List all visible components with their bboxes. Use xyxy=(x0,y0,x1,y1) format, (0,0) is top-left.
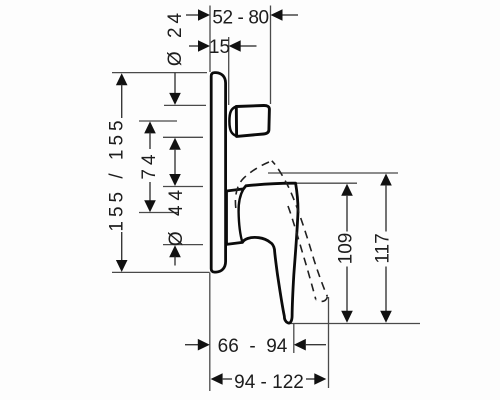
dimension 109 xyxy=(336,184,357,323)
dimension 74 (axis distance) xyxy=(139,121,160,212)
svg-text:15: 15 xyxy=(209,37,230,58)
extension line: handle tip (right of 66-94) xyxy=(293,323,295,353)
dimension 94-122 xyxy=(211,372,327,393)
extension line: wall face bottom (left of 66-94 / 94-122) xyxy=(209,272,211,391)
svg-text:Ø 44: Ø 44 xyxy=(166,185,187,246)
raised handle dashed top edge xyxy=(235,161,271,208)
ref line: knob bottom xyxy=(163,136,203,138)
ref line: plate bottom xyxy=(112,271,210,273)
ref line: knob axis xyxy=(139,120,177,122)
ref line: lever axis xyxy=(139,212,179,214)
ref line: knob top xyxy=(164,104,206,106)
ref line: lever hub bottom xyxy=(163,244,203,246)
raised handle dashed outer edge xyxy=(272,161,328,297)
escutcheon plate (side view) xyxy=(211,73,225,273)
svg-text:155 / 155: 155 / 155 xyxy=(107,116,128,231)
dimension diameter 24 (knob) xyxy=(165,9,186,105)
svg-text:117: 117 xyxy=(373,233,394,263)
svg-text:52 - 80: 52 - 80 xyxy=(212,8,268,29)
ref line: lever hub top xyxy=(163,186,203,188)
ref line: lever top corner (109) xyxy=(297,182,358,184)
dimension diameter 44 (lever hub) xyxy=(166,185,187,266)
dimension 117 xyxy=(373,174,394,323)
extension line: knob front face (right of 52-80) xyxy=(270,6,272,105)
dimension 52-80 xyxy=(186,8,298,29)
dimension 15 xyxy=(189,37,257,58)
diverter knob xyxy=(236,105,269,136)
lever handle outline xyxy=(227,183,298,323)
ref line: plate top xyxy=(112,72,207,74)
svg-text:66 - 94: 66 - 94 xyxy=(218,336,288,357)
extension line: raised handle tip (right of 94-122) xyxy=(328,297,330,388)
dimension 155 / 155 (plate height) xyxy=(107,73,128,272)
ref line: raised handle top (117) xyxy=(268,172,398,174)
svg-text:94 - 122: 94 - 122 xyxy=(234,372,304,393)
shared arrows between knob bottom and lever hub top xyxy=(169,138,181,186)
raised handle dashed tip arc xyxy=(316,297,327,302)
raised handle dashed inner edge xyxy=(288,206,316,300)
svg-text:74: 74 xyxy=(139,150,160,179)
svg-text:109: 109 xyxy=(336,233,357,265)
extension line: wall face top (left of 52-80 and 15) xyxy=(209,6,211,73)
ref line: handle tip bottom xyxy=(288,323,420,325)
extension line: sleeve front (right of 15) xyxy=(228,37,230,105)
diverter knob neck xyxy=(229,106,236,136)
lever hub inner edge xyxy=(239,189,244,243)
dimension 66-94 xyxy=(185,336,326,357)
svg-text:Ø 24: Ø 24 xyxy=(165,9,186,66)
